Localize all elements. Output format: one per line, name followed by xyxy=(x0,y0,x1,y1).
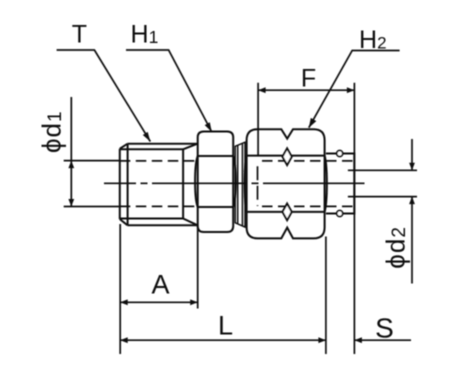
H2 hidden bore dashed xyxy=(257,166,259,206)
A dim line xyxy=(120,301,198,303)
thread chamfer diagonals xyxy=(120,144,198,226)
H2 bottom band xyxy=(247,212,325,239)
L arrows xyxy=(120,337,128,343)
dimension/leader lines xyxy=(57,50,417,354)
A arrows xyxy=(120,299,128,305)
H2 leader xyxy=(309,51,400,128)
H2 diamond bottom xyxy=(283,204,292,221)
tube stem xyxy=(326,154,354,214)
phi-d1 arrows xyxy=(68,161,74,169)
svg-text:H2: H2 xyxy=(359,26,387,54)
H1 arrow xyxy=(205,122,212,132)
collar ring between hexes xyxy=(235,142,245,227)
svg-text:ϕd1: ϕd1 xyxy=(37,110,67,153)
S arrow xyxy=(354,337,362,343)
H2 band boundary bottom xyxy=(248,211,325,213)
phi-d1 dim line xyxy=(70,97,72,207)
H2 middle band bulged sides xyxy=(245,156,327,212)
L dim line xyxy=(120,339,326,341)
S dim line xyxy=(354,339,411,341)
A ext line right xyxy=(197,225,199,309)
knurled nut H2 top band xyxy=(247,129,325,155)
phi-d2 arrows xyxy=(409,163,415,171)
thread body front outline xyxy=(120,149,183,219)
H2 diamond top xyxy=(283,148,292,165)
hex nut H1 xyxy=(198,132,234,157)
T leader xyxy=(57,50,151,142)
H2 band boundary top xyxy=(248,155,325,157)
H2 arrow xyxy=(309,118,317,128)
arrowheads xyxy=(68,87,415,343)
svg-text:H1: H1 xyxy=(131,20,159,48)
S ext line left xyxy=(325,237,327,355)
phi-d1 extension lines xyxy=(64,161,119,207)
svg-text:L: L xyxy=(218,311,233,341)
svg-text:S: S xyxy=(375,312,394,343)
F extension lines xyxy=(258,83,354,354)
F arrows xyxy=(258,87,266,93)
thread pitch dashed lines xyxy=(120,160,196,162)
svg-text:F: F xyxy=(301,65,316,93)
thread body (T) back outline xyxy=(127,144,197,226)
H1 leader xyxy=(126,50,212,132)
T arrow xyxy=(143,132,151,142)
F dim line xyxy=(258,89,354,91)
centerline xyxy=(104,182,365,184)
release sleeve circles xyxy=(337,151,343,157)
phi-d2 feature/ext lines xyxy=(348,170,417,196)
phi-d2 dim line xyxy=(411,139,413,284)
svg-text:T: T xyxy=(72,21,87,49)
svg-text:ϕd2: ϕd2 xyxy=(381,226,411,269)
svg-text:A: A xyxy=(151,270,169,300)
A/L ext line left xyxy=(119,224,121,354)
